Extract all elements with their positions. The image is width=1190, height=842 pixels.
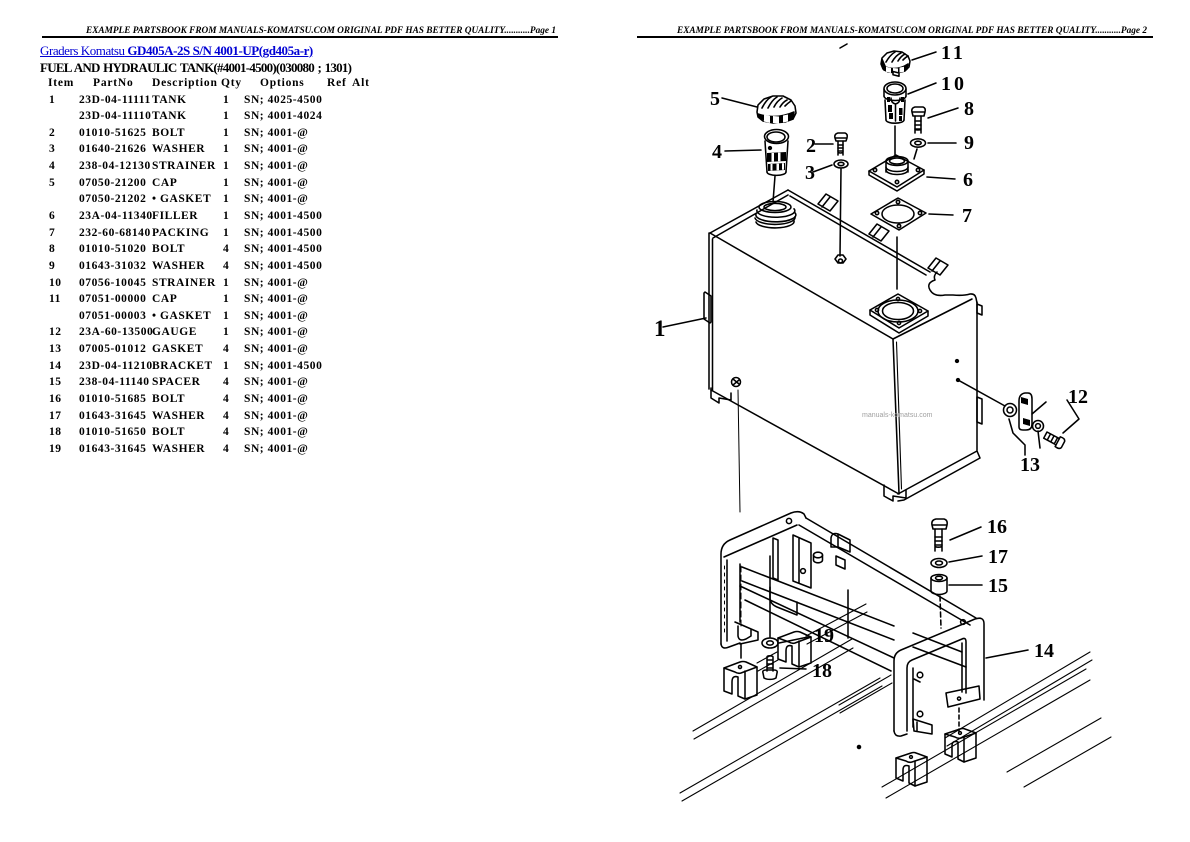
svg-text:12: 12: [1068, 386, 1088, 408]
svg-text:11: 11: [941, 42, 966, 64]
svg-text:5: 5: [710, 88, 720, 110]
svg-text:18: 18: [812, 660, 832, 682]
svg-text:1: 1: [654, 316, 666, 341]
svg-text:9: 9: [964, 132, 974, 154]
svg-text:7: 7: [962, 205, 972, 227]
svg-text:15: 15: [988, 575, 1008, 597]
svg-text:4: 4: [712, 141, 722, 163]
svg-text:13: 13: [1020, 454, 1040, 476]
svg-text:manuals-komatsu.com: manuals-komatsu.com: [862, 412, 933, 419]
svg-text:6: 6: [963, 169, 973, 191]
svg-text:16: 16: [987, 516, 1007, 538]
svg-text:2: 2: [806, 135, 816, 157]
svg-text:8: 8: [964, 98, 974, 120]
svg-text:14: 14: [1034, 640, 1054, 662]
svg-text:3: 3: [805, 162, 815, 184]
svg-text:17: 17: [988, 546, 1008, 568]
svg-text:10: 10: [941, 73, 967, 95]
